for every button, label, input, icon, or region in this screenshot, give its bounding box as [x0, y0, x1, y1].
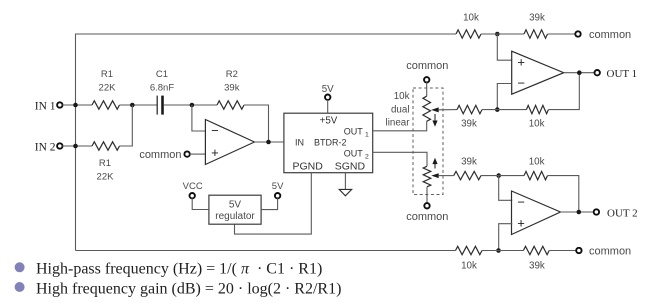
svg-text:common: common [406, 60, 448, 72]
svg-text:5V: 5V [229, 199, 242, 210]
dashed enclosure dual pot [413, 88, 443, 195]
terminal OUT 2 [594, 207, 638, 219]
svg-text:10k: 10k [529, 119, 545, 130]
svg-text:39k: 39k [461, 157, 477, 168]
wire U4 non-inverting input [499, 224, 513, 251]
wire SGND pin [344, 173, 346, 190]
svg-text:High-pass frequency (Hz) = 1/(: High-pass frequency (Hz) = 1/( π · C1 · … [36, 261, 322, 278]
resistor R10 39k bottom [523, 246, 549, 271]
wire node to R4 [481, 33, 524, 35]
resistor R5 39k feedback [457, 105, 482, 129]
node junction U4 output [577, 210, 582, 215]
resistor R4 39k top [524, 13, 548, 39]
svg-text:C1: C1 [156, 69, 168, 80]
terminal common pot bottom [406, 203, 448, 223]
wire R9 to R10 [482, 250, 523, 252]
node junction IN1/bus [73, 103, 78, 108]
terminal VCC [183, 181, 203, 198]
ground symbol SGND [339, 189, 352, 195]
terminal common pot top [406, 60, 448, 83]
op-amp U1 [205, 120, 254, 165]
direction arrow VR1b up [432, 158, 437, 169]
bullet note 1 [15, 261, 323, 278]
svg-text:+: + [517, 54, 525, 69]
resistor R6 10k feedback [526, 105, 548, 129]
svg-text:39k: 39k [224, 83, 240, 94]
direction arrow VR1a down [432, 114, 437, 127]
svg-text:dual: dual [391, 105, 410, 116]
terminal 5V BTDR-2 [322, 84, 334, 100]
node junction U1 output [266, 140, 271, 145]
wire R2 to U1 output [244, 105, 269, 142]
terminal IN 2 [35, 141, 63, 153]
svg-text:IN: IN [295, 137, 304, 147]
wire left bus [75, 34, 77, 251]
wire to U3 non-inverting input [497, 34, 511, 60]
svg-text:R1: R1 [101, 69, 113, 80]
resistor R9 10k bottom [456, 246, 483, 271]
wire BTDR-2 OUT2 to VR1b [373, 152, 427, 166]
svg-text:39k: 39k [529, 261, 545, 272]
svg-text:5V: 5V [322, 84, 334, 95]
wire R5 to R6 [482, 109, 526, 111]
svg-text:High frequency gain (dB) = 20: High frequency gain (dB) = 20 · log(2 · … [36, 280, 341, 297]
terminal IN 1 [35, 100, 63, 112]
svg-text:22K: 22K [97, 172, 115, 183]
svg-text:10k: 10k [529, 157, 545, 168]
svg-text:10k: 10k [463, 13, 479, 24]
svg-text:common: common [406, 211, 448, 223]
op-amp U3 [512, 51, 564, 94]
wire R6 to U3 output [548, 73, 579, 110]
resistor R8 10k feedback2 [524, 157, 548, 180]
svg-text:6.8nF: 6.8nF [150, 83, 174, 94]
svg-text:10k: 10k [461, 261, 477, 272]
node A junction [130, 103, 135, 108]
resistor R1 top [92, 69, 120, 109]
node junction U3 inverting [495, 107, 500, 112]
wire IN1 to bus [62, 104, 92, 106]
wire regulator to 5V terminal [261, 198, 278, 209]
svg-text:OUT: OUT [344, 127, 364, 137]
wire 5V to BTDR-2 [327, 100, 329, 114]
wire R4 to common [548, 33, 576, 35]
svg-text:BTDR-2: BTDR-2 [314, 137, 347, 147]
svg-text:common: common [589, 246, 631, 258]
wiper arrow VR1b [431, 173, 453, 178]
wire BTDR-2 OUT1 to VR1a [373, 121, 427, 131]
svg-text:OUT 2: OUT 2 [607, 207, 638, 219]
svg-text:R2: R2 [226, 69, 238, 80]
resistor R7 39k feedback2 [454, 157, 481, 180]
wire common to U1 non-inverting input [190, 153, 206, 155]
svg-text:−: − [517, 194, 525, 209]
svg-text:OUT 1: OUT 1 [607, 68, 638, 80]
svg-text:R1: R1 [99, 158, 111, 169]
node junction U3 output [577, 70, 582, 75]
wire U3 inverting input [497, 84, 511, 110]
svg-text:OUT: OUT [344, 148, 364, 158]
terminal common bottom right [576, 246, 631, 258]
svg-text:+: + [211, 145, 219, 160]
svg-text:22K: 22K [99, 83, 117, 94]
svg-text:IN 1: IN 1 [35, 100, 56, 112]
resistor R1 bottom [92, 142, 120, 183]
potentiometer VR1a [423, 96, 431, 121]
terminal common top right [575, 29, 631, 41]
node B junction [190, 103, 195, 108]
svg-text:1: 1 [365, 132, 369, 139]
svg-text:39k: 39k [461, 119, 477, 130]
wire R1 to node A [120, 104, 158, 106]
terminal 5V regulator output [272, 181, 284, 198]
wire VCC to regulator [192, 198, 209, 209]
wire U3 output [564, 72, 595, 74]
svg-text:PGND: PGND [293, 160, 324, 172]
svg-text:IN 2: IN 2 [35, 141, 56, 153]
wire R7 to R8 [481, 175, 524, 177]
resistor R2 [217, 69, 244, 109]
svg-text:+: + [517, 216, 525, 231]
terminal common U1 [139, 149, 189, 161]
svg-text:SGND: SGND [335, 160, 366, 172]
IC U2 BTDR-2 box [284, 113, 373, 173]
block 5V regulator [209, 195, 261, 224]
svg-text:VCC: VCC [183, 181, 203, 192]
svg-text:+5V: +5V [320, 116, 338, 127]
bullet note 2 [15, 280, 342, 297]
wire R10 to common [549, 250, 576, 252]
wire bottom bus [76, 250, 456, 252]
node junction U3 plus [495, 32, 500, 37]
wire R1 bottom to node A [120, 105, 133, 146]
wire common to VR1a [426, 82, 428, 96]
wire node B to U1 inverting input [192, 105, 206, 131]
wire IN2 to bus [62, 145, 92, 147]
label 10k dual linear [386, 91, 411, 128]
svg-text:−: − [517, 75, 525, 90]
svg-text:5V: 5V [272, 181, 284, 192]
potentiometer VR1b [423, 166, 431, 187]
svg-text:−: − [211, 123, 219, 138]
svg-text:regulator: regulator [215, 211, 255, 222]
wiper arrow VR1a [431, 107, 457, 112]
wire U1 output to BTDR-2 IN [255, 141, 284, 143]
capacitor C1 [150, 69, 174, 115]
op-amp U4 [512, 191, 561, 235]
svg-text:linear: linear [386, 117, 411, 128]
wire PGND pin to regulator [235, 173, 312, 234]
svg-text:common: common [139, 149, 181, 161]
svg-text:10k: 10k [394, 91, 410, 102]
wire C1 to node B [164, 104, 217, 106]
node junction U4 inverting [496, 173, 501, 178]
terminal OUT 1 [595, 68, 638, 80]
svg-text:39k: 39k [529, 13, 545, 24]
resistor R3 10k top [456, 13, 481, 39]
wire U4 inverting input [499, 176, 513, 201]
wire VR1b to common bottom [426, 187, 428, 204]
node junction IN2/bus [73, 144, 78, 149]
svg-text:common: common [589, 29, 631, 41]
svg-text:2: 2 [365, 153, 369, 160]
node junction U4 plus [496, 248, 501, 253]
wire U4 output [561, 211, 595, 213]
wire R8 to U4 output [548, 176, 579, 212]
wire top bus [76, 33, 457, 35]
